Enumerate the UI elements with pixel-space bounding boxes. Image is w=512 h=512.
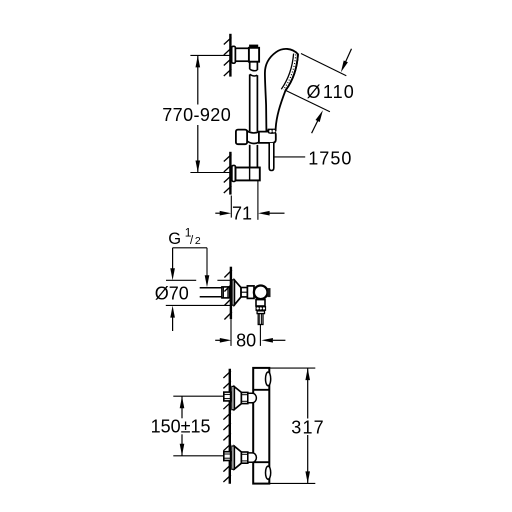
svg-text:80: 80: [236, 331, 256, 351]
dimension 80 arrows: [215, 339, 221, 341]
top bracket cylinder: [235, 48, 249, 61]
hose connector neck: [256, 300, 265, 306]
svg-text:71: 71: [232, 204, 252, 224]
dimension Ø70 arrows: [172, 248, 174, 270]
wall hatch (bottom bracket): [224, 155, 232, 194]
union ring: [241, 392, 247, 403]
dimension 317 line: [307, 368, 309, 483]
ball cap: [267, 288, 270, 297]
dimension Ø110 extension lines: [285, 54, 346, 112]
inlet nipple: [248, 393, 257, 402]
hex nut: [224, 452, 231, 461]
wall (top bracket): [229, 34, 231, 77]
ball joint: [254, 286, 268, 300]
top bracket flange: [232, 46, 236, 63]
dimension 150±15 line: [181, 396, 183, 456]
hose stem lower: [258, 314, 263, 325]
wall hatch (top bracket): [224, 38, 232, 77]
rail lower piece: [250, 145, 258, 168]
shower hose: [269, 143, 274, 171]
wall (bottom bracket): [229, 152, 231, 195]
knurled nut: [256, 306, 267, 311]
hand shower face nozzle dots: [283, 54, 295, 89]
svg-text:1750: 1750: [308, 148, 352, 168]
thermostat body: [253, 368, 269, 484]
bottom cap end ellipse: [266, 466, 271, 479]
rail upper piece: [250, 62, 258, 70]
top bracket rail holder block: [249, 48, 259, 62]
union ring: [241, 452, 247, 463]
dimension 71 arrows: [215, 212, 221, 214]
dimension 770-920 line: [197, 55, 199, 172]
hand shower face inner edge: [281, 54, 293, 90]
escutcheon rim: [232, 446, 235, 469]
leader 1750: [275, 156, 306, 158]
top cap end ellipse: [266, 372, 271, 386]
bottom cap seam: [253, 461, 269, 463]
bottom wall connection: [224, 446, 257, 469]
wall (bottom): [229, 369, 231, 484]
dimension Ø110 arrow upper: [343, 49, 352, 68]
escutcheon rim: [232, 280, 234, 305]
inlet nipple: [248, 453, 257, 462]
svg-text:150±15: 150±15: [151, 417, 211, 437]
dimension 150±15 extension lines: [173, 396, 224, 456]
dimension 150±15 arrows: [180, 396, 185, 408]
slider right block: [259, 132, 276, 143]
svg-text:317: 317: [291, 417, 325, 437]
dimension 317 extension lines: [270, 368, 316, 483]
dimension 770-920 extension lines: [190, 55, 230, 172]
top cap seam: [253, 389, 269, 391]
escutcheon cone: [234, 280, 241, 305]
dimension Ø110 arrow lower: [312, 114, 321, 133]
rail middle piece: [250, 75, 258, 132]
top wall connection: [224, 386, 257, 409]
dimension 71 extension lines: [231, 181, 258, 220]
rail break symbol: [250, 69, 258, 76]
supply pipe G 1/2: [200, 288, 222, 297]
svg-text:Ø70: Ø70: [155, 283, 189, 303]
leader G 1/2: [173, 248, 207, 278]
hand shower head outline: [265, 49, 298, 131]
slider left block: [236, 130, 247, 145]
svg-text:2: 2: [195, 235, 201, 247]
dimension 770-920 arrows: [196, 55, 201, 67]
wall hatch (bottom): [223, 371, 231, 482]
wall hatch (middle): [224, 270, 232, 320]
dimension Ø70 extension lines: [166, 280, 232, 305]
dimension 80 extension lines: [231, 319, 260, 346]
escutcheon cone: [234, 387, 241, 410]
bottom bracket body: [236, 168, 260, 181]
pipe nut: [222, 287, 230, 298]
slider waist around rail: [247, 131, 259, 144]
svg-text:Ø110: Ø110: [307, 82, 355, 102]
svg-text:770-920: 770-920: [162, 105, 231, 125]
hand shower face outer edge: [286, 54, 299, 90]
svg-text:G: G: [168, 230, 181, 248]
bottom bracket rail line: [249, 168, 251, 181]
rail top cap: [249, 45, 258, 48]
valve body ring: [247, 286, 254, 299]
valve union nut: [241, 288, 247, 297]
bottom bracket flange: [232, 165, 236, 181]
dimension 317 arrows: [305, 368, 310, 380]
hand shower handle tip band: [268, 129, 277, 134]
escutcheon cone: [234, 446, 241, 469]
hex nut: [224, 392, 231, 401]
hose stem upper: [257, 311, 264, 314]
escutcheon rim: [232, 386, 235, 409]
wall (middle): [230, 267, 232, 319]
